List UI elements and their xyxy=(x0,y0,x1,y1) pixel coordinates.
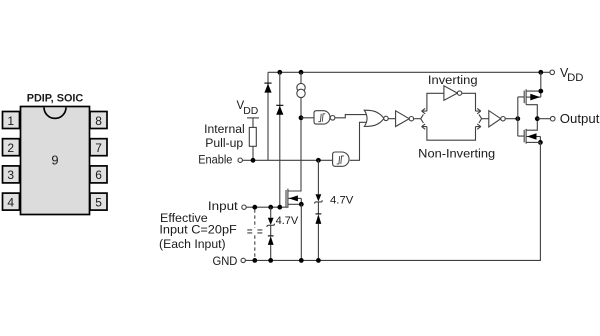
transistor Q2 NMOS channel bar xyxy=(525,129,527,144)
Schmitt buffer G2 xyxy=(333,152,349,166)
label Internal Pull-up xyxy=(204,122,245,150)
package body U9 xyxy=(21,107,90,215)
wire non-inverting option rail xyxy=(427,127,476,141)
terminal VDD right xyxy=(550,70,555,75)
wire enable line xyxy=(242,159,332,161)
resistor R1 internal pull-up xyxy=(249,127,256,146)
wire resistor to enable line xyxy=(252,146,254,160)
hysteresis glyph G2 xyxy=(337,156,344,164)
svg-text:3: 3 xyxy=(7,168,14,182)
wire Q2 drain to output xyxy=(526,119,537,131)
svg-text:DD: DD xyxy=(243,105,258,117)
wire current source branch xyxy=(288,72,301,191)
transistor Q3 channel bar xyxy=(287,189,289,207)
inverter U2 inverting option xyxy=(444,86,458,101)
svg-text:Internal: Internal xyxy=(204,122,245,136)
svg-text:Input: Input xyxy=(208,199,239,213)
supply tick VDD xyxy=(247,117,259,119)
svg-text:(Each Input): (Each Input) xyxy=(159,237,226,251)
NOR gate G3 xyxy=(364,110,384,126)
bubble G3 output xyxy=(384,116,388,120)
svg-text:4: 4 xyxy=(7,195,14,209)
node Q1 drain-body junction xyxy=(538,89,543,94)
bond arrow lower left xyxy=(422,124,427,129)
svg-text:Non-Inverting: Non-Inverting xyxy=(418,147,495,161)
zener Z2 bottom diode xyxy=(316,214,322,224)
pin 7 xyxy=(90,139,107,156)
node input-capacitor junction xyxy=(252,205,257,210)
transistor Q1 PMOS channel bar xyxy=(525,89,527,104)
node top rail junction at current source xyxy=(299,70,304,75)
node enable-zener junction xyxy=(316,158,321,163)
capacitor C1 dashed branch upper xyxy=(254,209,256,228)
terminal Input xyxy=(242,205,246,209)
node Schmitt input junction xyxy=(299,115,304,120)
bubble U3 output xyxy=(501,117,505,121)
svg-text:GND: GND xyxy=(213,254,238,268)
node B whiskers xyxy=(479,114,482,123)
terminal Enable xyxy=(238,158,242,162)
transistor Q3 gate bar xyxy=(285,190,287,207)
wire Q2 source stub xyxy=(526,141,540,143)
capacitor C1 dashed branch lower xyxy=(254,235,256,259)
inverter U1 xyxy=(396,111,410,127)
Q2 body arrow xyxy=(526,133,540,142)
diode D2 input clamp xyxy=(276,105,283,115)
wire Q3 source stub xyxy=(288,203,301,205)
bubble U2 output xyxy=(457,91,461,95)
svg-text:4.7V: 4.7V xyxy=(330,194,354,206)
zener Z1 top diode xyxy=(267,218,275,227)
wire Q1 source to output xyxy=(526,105,537,119)
wire output xyxy=(537,118,550,120)
wire Q1 drain stub xyxy=(526,72,541,97)
pin 6 xyxy=(90,166,107,183)
pin 2 xyxy=(3,139,20,156)
bubble G1 output xyxy=(330,116,335,121)
pin 3 xyxy=(3,166,20,183)
wire gate feed vertical xyxy=(518,97,524,136)
svg-text:2: 2 xyxy=(7,141,14,155)
node enable-resistor junction xyxy=(251,158,256,163)
wire VDD tick to resistor xyxy=(252,118,254,128)
label VDD left xyxy=(237,100,259,117)
wire input line xyxy=(246,206,288,208)
pin 1 xyxy=(3,112,20,129)
svg-text:PDIP, SOIC: PDIP, SOIC xyxy=(27,92,84,104)
label Effective Input C=20pF (Each Input) xyxy=(159,211,237,251)
svg-text:8: 8 xyxy=(95,114,102,128)
wire U3 to output gates xyxy=(505,118,518,120)
svg-text:Enable: Enable xyxy=(198,152,232,166)
label VDD right xyxy=(560,66,584,84)
wire G2 output to NOR bottom input xyxy=(350,122,367,160)
node GND zener Z2 junction xyxy=(316,258,321,263)
node GND Q3 junction xyxy=(299,258,304,263)
node output gate junction xyxy=(515,116,520,121)
zener Z1 bottom diode xyxy=(268,236,274,245)
transistor Q2 NMOS gate bar xyxy=(523,130,525,143)
node top rail junction at output PMOS xyxy=(538,70,543,75)
zener Z2 top diode xyxy=(315,194,323,203)
diode D1 enable clamp xyxy=(264,83,271,93)
svg-text:7: 7 xyxy=(95,141,102,155)
svg-text:4.7V: 4.7V xyxy=(276,215,299,227)
node GND zener Z1 junction xyxy=(268,258,273,263)
wire U1 to option node A xyxy=(414,118,421,120)
svg-text:Output: Output xyxy=(560,111,600,126)
wire input clamp branch xyxy=(279,72,281,207)
node output junction xyxy=(535,116,540,121)
svg-text:6: 6 xyxy=(95,168,102,182)
wire top VDD rail xyxy=(268,71,550,73)
capacitor C1 plates xyxy=(247,230,262,233)
wire GND rail xyxy=(245,142,540,260)
node Q3 source junction xyxy=(299,202,304,207)
node input-zener junction xyxy=(268,205,273,210)
wire enable clamp branch xyxy=(267,72,269,160)
hysteresis glyph G1 xyxy=(318,114,325,122)
svg-text:Inverting: Inverting xyxy=(428,73,478,87)
svg-text:1: 1 xyxy=(7,114,14,128)
bubble U1 output xyxy=(409,117,413,121)
terminal GND xyxy=(241,258,245,262)
node input-clamp junction xyxy=(277,205,282,210)
inverter U3 xyxy=(489,111,501,127)
pin 4 xyxy=(3,193,20,210)
bond arrow upper right xyxy=(476,108,481,113)
Q1 body arrow xyxy=(526,94,541,101)
transistor Q1 PMOS gate bar xyxy=(523,91,525,104)
pin 5 xyxy=(90,193,107,210)
wire Schmitt G1 input xyxy=(301,117,314,119)
wire Q3 source to GND xyxy=(300,204,302,260)
node A whiskers xyxy=(421,114,424,123)
svg-text:5: 5 xyxy=(95,195,102,209)
current source I1 xyxy=(297,83,305,97)
wire zener Z1 branch xyxy=(270,207,272,260)
Schmitt inverter G1 xyxy=(314,111,330,124)
terminal Output xyxy=(550,116,555,121)
Q3 body arrow xyxy=(288,195,301,204)
pin 8 xyxy=(90,112,107,129)
wire inverting option rail xyxy=(427,93,476,111)
wire zener Z2 branch xyxy=(317,160,319,260)
svg-text:Pull-up: Pull-up xyxy=(205,136,243,150)
package notch xyxy=(44,107,66,118)
bond arrow upper left xyxy=(422,108,427,113)
svg-text:9: 9 xyxy=(51,153,58,168)
wire G3 to inverter U1 xyxy=(388,118,395,120)
node top rail junction at diode D2 xyxy=(277,70,282,75)
wire G1 to NOR top input xyxy=(335,115,367,118)
svg-text:DD: DD xyxy=(567,72,583,84)
node GND capacitor junction xyxy=(252,258,257,263)
wire node B to inverter U3 xyxy=(482,118,489,120)
bond arrow lower right xyxy=(476,124,481,129)
node Q2 source-body junction xyxy=(538,140,543,145)
svg-text:Input C=20pF: Input C=20pF xyxy=(159,223,236,237)
